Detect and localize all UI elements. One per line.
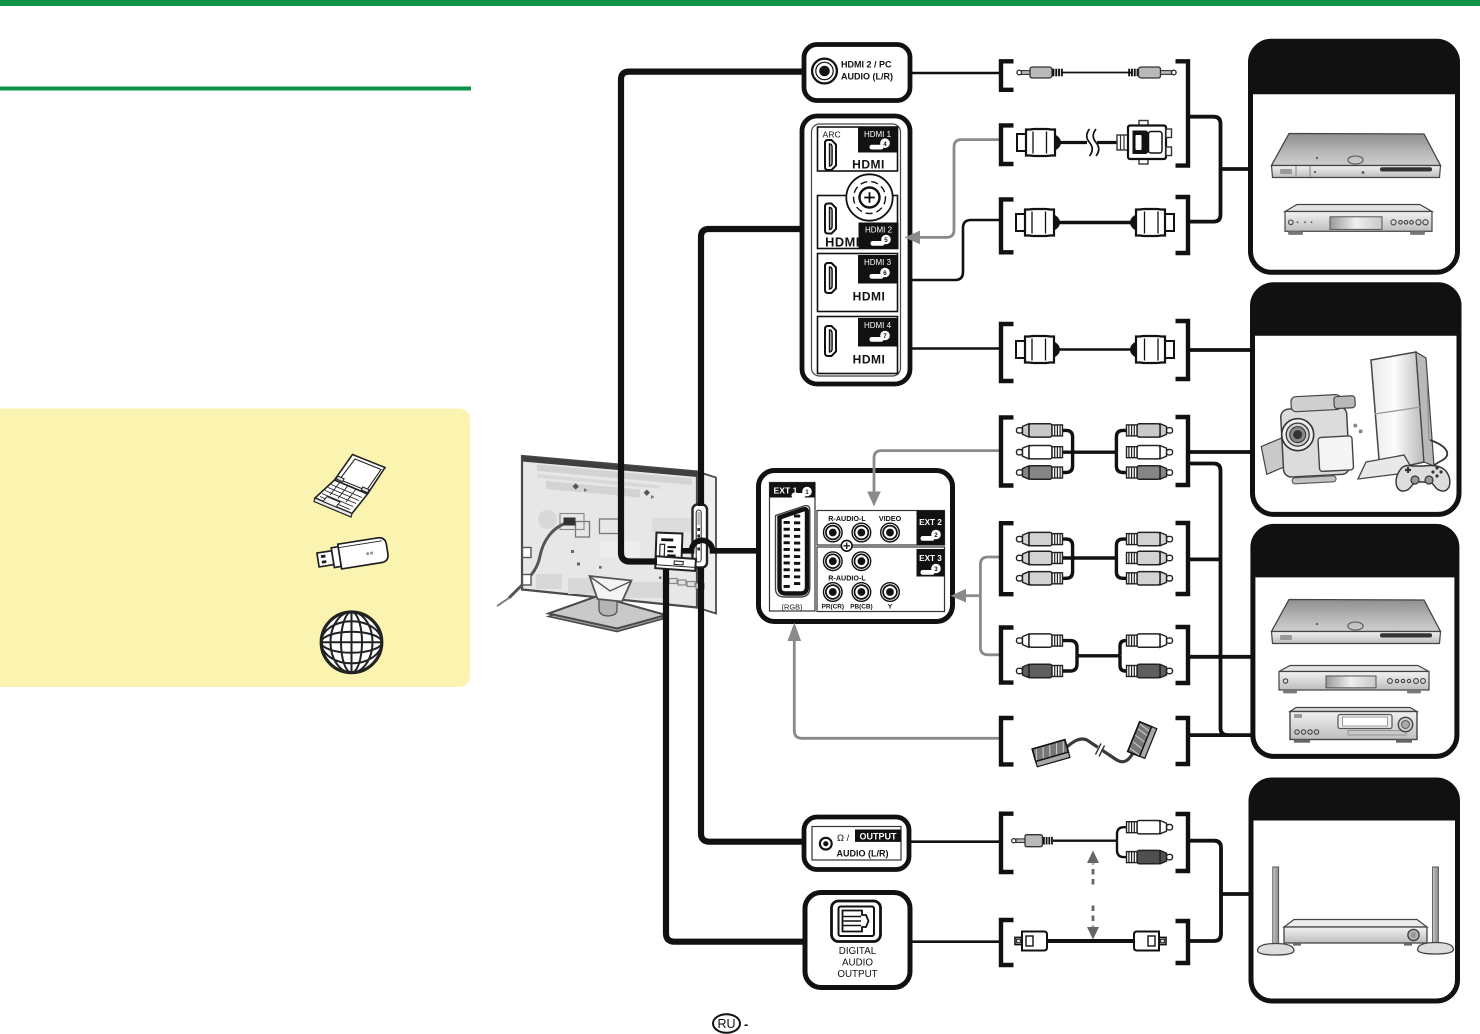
wire HDMI2/PC panel to TV (621, 72, 804, 562)
right side connector: cables 1+2 bus to device box 1 (1188, 117, 1221, 222)
svg-text:HDMI 1: HDMI 1 (864, 130, 892, 139)
svg-text:AUDIO (L/R): AUDIO (L/R) (837, 849, 889, 859)
cable 2: HDMI to DVI conversion cable (1017, 121, 1172, 165)
green heading rule (0, 87, 471, 91)
RU page mark (713, 1014, 748, 1033)
cable 3: HDMI cable (1016, 209, 1174, 236)
EXT1 column (770, 483, 816, 612)
svg-text:HDMI 2: HDMI 2 (865, 226, 893, 235)
svg-text:Y: Y (888, 604, 893, 611)
cable 6: component video cable (3 RCA) (1017, 532, 1173, 585)
game console illustration (1358, 352, 1450, 491)
jack label plate (655, 533, 682, 562)
EXT2 row (817, 511, 945, 546)
svg-text:PB(CB): PB(CB) (850, 604, 872, 611)
line HDMI2/PC panel to audio cable (910, 72, 1001, 75)
line audio pair cable to device box 3 (1188, 655, 1253, 659)
device box 3 (BD/DVD/VCR recorders) (1253, 526, 1457, 756)
TV back stripes (537, 465, 692, 486)
svg-text:Ω /: Ω / (837, 832, 850, 843)
svg-text:EXT 3: EXT 3 (919, 554, 942, 563)
device box 1 (Blu-ray / DVD player) (1251, 41, 1458, 272)
back light patches (536, 574, 562, 589)
panel DIGITAL AUDIO OUTPUT (805, 893, 910, 988)
receiver unit (1284, 920, 1427, 928)
gray line AV cable to EXT2 arrow (874, 451, 1001, 492)
svg-text:4: 4 (883, 141, 887, 148)
svg-text:HDMI 2 / PC: HDMI 2 / PC (841, 60, 892, 70)
svg-text:7: 7 (883, 333, 887, 340)
svg-text:HDMI: HDMI (853, 290, 886, 304)
dashed or-arrow down (1092, 906, 1095, 927)
svg-text:2: 2 (934, 532, 938, 539)
svg-text:6: 6 (883, 270, 887, 277)
gray line DVI cable to HDMI2 arrow (919, 140, 1001, 238)
line HDMI cable to device box 2 (1188, 348, 1254, 352)
USB wireless dongle icon (316, 537, 389, 573)
lines audio cables bus to device box 4 (1188, 841, 1221, 941)
line HDMI3 to HDMI cable (906, 220, 1001, 280)
svg-text:PR(CR): PR(CR) (822, 604, 844, 611)
dvd recorder illustration (1285, 205, 1432, 235)
svg-text:RU: RU (717, 1017, 735, 1031)
yellow note box (0, 409, 470, 688)
cable 9: mini-jack to 2 RCA audio cable (1012, 821, 1173, 864)
panel HDMI 1-4 (802, 116, 910, 384)
line AUDIO OUTPUT panel to cable (909, 840, 1001, 843)
top green bar (0, 0, 1480, 6)
stand wedge cover (590, 576, 632, 602)
svg-text:EXT 2: EXT 2 (919, 518, 942, 527)
jack cover bar (655, 556, 696, 571)
svg-text:R-AUDIO-L: R-AUDIO-L (828, 514, 866, 523)
HDMI2 port contents (825, 204, 836, 234)
vcr illustration (1290, 708, 1417, 743)
outline boxes (576, 522, 590, 538)
svg-text:(RGB): (RGB) (782, 603, 803, 612)
svg-text:ARC: ARC (823, 130, 841, 140)
line DIGITAL AUDIO panel to cable (910, 940, 1001, 943)
gray line SCART cable to EXT1 arrow (794, 641, 1001, 738)
antenna F-connector (846, 174, 892, 220)
svg-text:HDMI: HDMI (825, 235, 860, 250)
svg-text:3: 3 (934, 566, 938, 573)
cable 7: audio L/R cable (2 RCA) (1017, 634, 1173, 678)
wire TV to AUDIO OUTPUT panel (701, 568, 803, 842)
camcorder illustration (1259, 393, 1365, 485)
HDMI3 port box (818, 254, 898, 312)
EXT3 block (817, 547, 945, 612)
svg-text:HDMI 3: HDMI 3 (864, 258, 892, 267)
stand neck (599, 598, 617, 616)
wire TV to DIGITAL AUDIO OUTPUT panel (666, 569, 803, 942)
svg-text:HDMI 4: HDMI 4 (864, 321, 892, 330)
panel AUDIO OUTPUT (804, 817, 909, 870)
cable 1: stereo mini-jack audio cable (1017, 67, 1176, 78)
TV back main face (522, 456, 697, 608)
HDMI1 port box (818, 127, 898, 171)
dvd player illustration (1279, 666, 1429, 694)
cable 5: composite AV cable (3 RCA) (1017, 424, 1173, 480)
svg-text:R-AUDIO-L: R-AUDIO-L (828, 574, 866, 583)
dashed or-arrow up (1092, 864, 1095, 885)
TV top bezel (522, 456, 697, 477)
screw (841, 540, 852, 551)
HDMI4 port box (818, 317, 898, 374)
svg-text:AUDIO (L/R): AUDIO (L/R) (841, 72, 893, 82)
power cord (560, 514, 584, 530)
brackets right column (1176, 61, 1189, 963)
right speaker (1433, 867, 1439, 943)
vesa circle (538, 510, 557, 529)
stand base (549, 596, 667, 629)
brackets left column (1001, 61, 1014, 965)
svg-text:AUDIO: AUDIO (842, 958, 873, 969)
gray line component+audio cables to EXT3 arrow (980, 557, 1001, 655)
cable 4: HDMI cable (1016, 336, 1174, 363)
svg-text:OUTPUT: OUTPUT (837, 969, 877, 980)
HDMI2 port box (818, 196, 898, 249)
wire HDMI panel to TV side strip (701, 229, 802, 506)
side connector strip (693, 505, 708, 568)
svg-text:DIGITAL: DIGITAL (839, 946, 877, 957)
line HDMI4 to HDMI cable (906, 347, 1001, 350)
cable clamp chain (669, 579, 704, 589)
cable 10: optical digital audio cable (1015, 932, 1166, 951)
blu-ray player illustration (1272, 600, 1441, 644)
svg-text:-: - (744, 1017, 748, 1032)
svg-text:5: 5 (884, 237, 888, 244)
TV right side face (697, 472, 716, 614)
laptop icon (314, 455, 385, 518)
svg-text:1: 1 (805, 489, 809, 496)
stand base shadow (549, 599, 667, 632)
wire EXT panel to TV with hop bridge (681, 540, 759, 551)
SCART connector (776, 506, 810, 597)
cable 8: SCART cable (1032, 722, 1157, 767)
line AV+component bus down to device box 3 (1188, 464, 1254, 736)
svg-text:HDMI: HDMI (853, 353, 886, 367)
line SCART cable to device box 3 (1188, 733, 1228, 737)
hook holes (523, 548, 532, 558)
device box 4 (audio system) (1251, 780, 1458, 1001)
svg-text:OUTPUT: OUTPUT (860, 831, 898, 841)
left speaker (1273, 867, 1279, 944)
device box 2 (camcorder / game console) (1253, 285, 1460, 515)
internet globe icon (321, 612, 382, 673)
panel HDMI2/PC AUDIO (804, 45, 910, 101)
svg-text:VIDEO: VIDEO (879, 514, 902, 523)
screws (573, 483, 579, 489)
svg-text:HDMI: HDMI (852, 158, 885, 172)
panel EXT 1/2/3 (759, 471, 953, 622)
line AV cable to device box 2 (1188, 450, 1254, 454)
blu-ray player illustration (1272, 134, 1441, 178)
controller (1396, 466, 1450, 492)
